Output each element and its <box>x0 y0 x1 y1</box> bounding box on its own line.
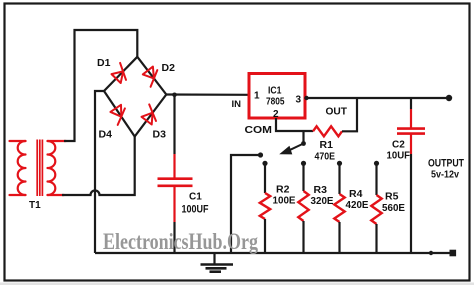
svg-text:D1: D1 <box>97 57 111 69</box>
diode D1 <box>112 63 127 83</box>
wire ground rail <box>95 252 453 254</box>
capacitor C2 <box>397 109 425 154</box>
svg-text:560E: 560E <box>382 202 405 214</box>
wire output line from pin 3 <box>305 97 449 99</box>
op-amp regulator IC1 7805 box <box>249 74 305 119</box>
contact node dot <box>258 152 263 157</box>
switch contact stub wire <box>231 155 260 253</box>
svg-text:D3: D3 <box>153 129 167 141</box>
wire pin 2 down and right to R1 <box>276 118 313 131</box>
wire R3 top lead <box>302 163 304 191</box>
junction node C1 <box>172 93 177 98</box>
wiper pivot node <box>301 141 306 146</box>
resistor R3 <box>298 191 308 221</box>
pin 3 contact dot <box>304 96 308 100</box>
wire C2 branch lower <box>410 154 412 253</box>
node R3 top <box>301 161 306 166</box>
wire R4 bottom lead <box>338 222 340 253</box>
svg-text:100E: 100E <box>273 195 296 207</box>
svg-text:D2: D2 <box>162 62 176 74</box>
junction node on rail <box>429 251 433 255</box>
node R2 top <box>262 161 267 166</box>
svg-text:3: 3 <box>296 95 302 106</box>
svg-text:1: 1 <box>254 91 260 102</box>
wire R2 top lead <box>264 163 266 193</box>
wire C1 branch lower <box>173 222 175 253</box>
resistor R2 <box>260 193 270 219</box>
svg-text:10UF: 10UF <box>387 151 411 162</box>
output terminal node <box>446 95 452 101</box>
wire R2 bottom lead <box>264 219 266 253</box>
transformer T1 core <box>37 140 42 197</box>
wire bridge positive to IC pin 1 <box>166 93 248 96</box>
rail end terminal <box>450 250 457 257</box>
svg-text:COM: COM <box>245 124 273 136</box>
wire R4 top lead <box>338 163 340 194</box>
page bottom edge shade <box>0 283 474 285</box>
svg-text:320E: 320E <box>311 195 334 207</box>
node R4 top <box>337 161 342 166</box>
wire R5 bottom lead <box>375 224 377 253</box>
wire C1 branch upper <box>173 95 175 154</box>
diode D3 <box>142 104 157 124</box>
svg-text:T1: T1 <box>29 200 41 211</box>
wire R1 right lead up to output line <box>342 98 357 131</box>
resistor R4 <box>334 194 344 222</box>
svg-text:D4: D4 <box>99 129 113 141</box>
svg-text:IN: IN <box>232 99 242 110</box>
svg-text:C2: C2 <box>392 140 405 151</box>
bridge diamond wires <box>104 57 166 137</box>
node R5 top <box>374 161 379 166</box>
wiper arrow <box>286 144 304 152</box>
transformer T1 secondary winding <box>48 141 67 195</box>
ground <box>201 253 234 272</box>
resistor R5 <box>371 195 381 224</box>
svg-text:OUT: OUT <box>326 107 348 118</box>
diode D4 <box>110 105 125 125</box>
svg-text:5v-12v: 5v-12v <box>431 169 459 181</box>
svg-text:ElectronicsHub.Org: ElectronicsHub.Org <box>103 229 258 255</box>
wire bridge negative to ground rail <box>95 91 104 253</box>
svg-text:C1: C1 <box>189 192 202 203</box>
wire secondary bottom to bridge bottom (hop over negative wire) <box>62 137 135 196</box>
wire secondary top to bridge top <box>64 30 137 141</box>
svg-text:100UF: 100UF <box>182 204 209 216</box>
svg-text:420E: 420E <box>346 199 369 211</box>
diode D2 <box>143 67 158 87</box>
resistor R1 <box>313 126 342 136</box>
wire R3 bottom lead <box>302 221 304 253</box>
svg-text:470E: 470E <box>315 151 336 163</box>
svg-text:R5: R5 <box>385 191 399 203</box>
svg-text:R1: R1 <box>320 139 334 151</box>
svg-text:7805: 7805 <box>266 97 285 108</box>
transformer T1 primary winding <box>10 141 26 195</box>
wire R5 top lead <box>375 163 377 195</box>
svg-text:IC1: IC1 <box>268 86 282 97</box>
wire C2 branch upper <box>410 98 412 109</box>
capacitor C1 <box>158 154 193 222</box>
wire wiper stub from COM line <box>302 131 304 143</box>
